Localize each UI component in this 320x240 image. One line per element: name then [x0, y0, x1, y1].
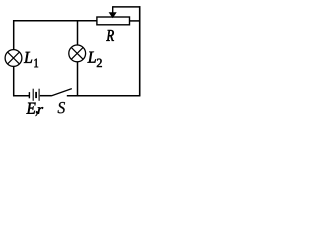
- wire wiper vertical: [112, 6, 114, 13]
- wiper arrowhead: [109, 12, 117, 18]
- wire resistor right stub: [130, 20, 141, 22]
- switch S blade: [52, 89, 72, 96]
- wire left vertical lower: [13, 66, 15, 96]
- wire bottom left: [13, 95, 29, 97]
- wire L2 branch upper: [77, 20, 79, 45]
- wire top main: [13, 20, 97, 22]
- wire battery to switch: [40, 95, 52, 97]
- battery E,r: [29, 89, 39, 101]
- label R: [106, 30, 114, 41]
- wire wiper top: [113, 6, 141, 8]
- wire L2 branch lower: [77, 62, 79, 96]
- label L1: [24, 52, 38, 67]
- label S: [58, 102, 65, 113]
- label E,r: [26, 103, 43, 116]
- lamp L1: [5, 50, 22, 67]
- wire left vertical upper: [13, 20, 15, 50]
- wire right vertical: [139, 6, 141, 96]
- wire bottom right: [67, 95, 141, 97]
- label L2: [88, 52, 102, 67]
- resistor R body: [97, 17, 130, 25]
- lamp L2: [69, 45, 86, 62]
